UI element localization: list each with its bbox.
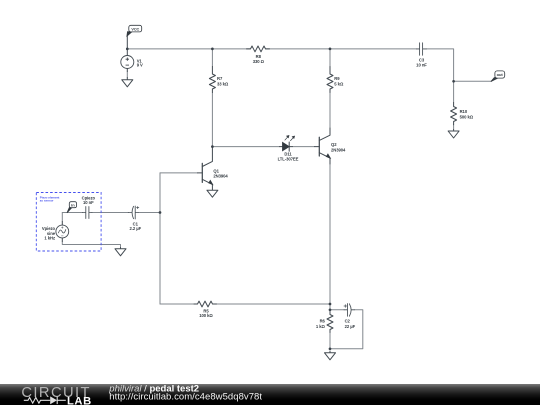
svg-text:22 µF: 22 µF bbox=[345, 324, 356, 329]
svg-text:500 kΩ: 500 kΩ bbox=[460, 114, 474, 119]
svg-text:R7: R7 bbox=[217, 76, 223, 81]
svg-text:2N3904: 2N3904 bbox=[331, 147, 346, 152]
svg-text:10 nF: 10 nF bbox=[416, 62, 427, 67]
svg-text:http://circuitlab.com/c4e8w5dq: http://circuitlab.com/c4e8w5dq8v78t bbox=[109, 392, 262, 403]
svg-text:Q2: Q2 bbox=[331, 142, 337, 147]
svg-text:2.2 µF: 2.2 µF bbox=[129, 226, 141, 231]
svg-text:2N3904: 2N3904 bbox=[213, 173, 228, 178]
svg-text:LTL-307EE: LTL-307EE bbox=[278, 157, 299, 162]
svg-text:as sensor: as sensor bbox=[40, 199, 55, 203]
svg-text:5 kΩ: 5 kΩ bbox=[334, 82, 344, 87]
svg-text:10 nF: 10 nF bbox=[83, 200, 94, 205]
svg-text:out: out bbox=[497, 72, 504, 77]
svg-text:R9: R9 bbox=[334, 76, 340, 81]
svg-text:VCC: VCC bbox=[131, 27, 139, 31]
svg-text:1 kΩ: 1 kΩ bbox=[316, 324, 326, 329]
svg-text:in: in bbox=[71, 202, 75, 207]
svg-text:33 kΩ: 33 kΩ bbox=[217, 82, 229, 87]
svg-text:330 Ω: 330 Ω bbox=[253, 59, 265, 64]
svg-text:1 kHz: 1 kHz bbox=[44, 236, 55, 241]
svg-text:100 kΩ: 100 kΩ bbox=[199, 313, 213, 318]
svg-text:9 V: 9 V bbox=[137, 63, 143, 68]
svg-text:R10: R10 bbox=[460, 109, 468, 114]
svg-text:LAB: LAB bbox=[67, 395, 92, 405]
